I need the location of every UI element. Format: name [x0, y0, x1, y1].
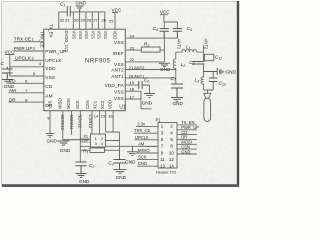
svg-text:GND: GND — [79, 179, 90, 184]
power VCC right top — [160, 10, 171, 22]
wire pin23 IREF — [125, 49, 141, 51]
svg-text:TX_EN: TX_EN — [49, 24, 54, 38]
wire pin10 — [63, 111, 89, 140]
ground below C7 — [171, 98, 184, 106]
svg-text:11: 11 — [160, 157, 165, 162]
antenna connector — [204, 93, 211, 121]
ground below C6 — [142, 94, 155, 106]
wire header pin9 — [137, 152, 159, 154]
svg-text:AM: AM — [138, 141, 145, 146]
wire pin13 stub — [91, 111, 93, 134]
ground below C2 — [76, 174, 91, 185]
wire below C9 — [203, 64, 205, 77]
capacitor C9 series on ANT2 line — [189, 60, 204, 66]
ground left of header — [125, 146, 138, 164]
wire pin5 VSS — [10, 75, 44, 77]
svg-text:VCC: VCC — [160, 10, 171, 15]
net label DR pin8 — [9, 97, 28, 102]
capacitor C left decoupling — [1, 61, 13, 80]
capacitor C3 crystal right — [108, 160, 125, 170]
wire crystal pad2 row to C3 — [106, 132, 120, 160]
svg-text:16M: 16M — [82, 139, 89, 143]
svg-text:VDD: VDD — [108, 100, 113, 109]
svg-text:GND: GND — [60, 148, 71, 153]
capacitor C5 — [173, 26, 192, 38]
wire header pin1 — [136, 126, 158, 128]
capacitor C2 crystal left — [76, 162, 95, 174]
wire pin2 — [14, 50, 44, 52]
svg-text:C: C — [1, 61, 5, 67]
wire L3 bottom — [203, 84, 205, 90]
wire crystal bottom row long run to header — [80, 145, 158, 147]
svg-text:IREF: IREF — [113, 51, 124, 56]
svg-text:VSS: VSS — [114, 40, 124, 45]
svg-text:VSS: VSS — [97, 31, 102, 40]
svg-text:DR: DR — [9, 97, 16, 102]
svg-text:CSN: CSN — [85, 100, 90, 109]
svg-text:VSS: VSS — [103, 31, 108, 40]
wire crystal pad1 row to MISO line — [63, 139, 91, 141]
svg-text:CD: CD — [9, 79, 16, 84]
U1 top pin names VSS vertical — [72, 31, 109, 40]
wire R2 to ground node — [160, 49, 164, 51]
svg-text:XC1: XC1 — [93, 100, 98, 109]
svg-text:14: 14 — [94, 113, 99, 118]
svg-text:SCK: SCK — [75, 100, 80, 109]
svg-text:XC2: XC2 — [100, 100, 105, 109]
ground on MISO crystal line — [58, 141, 71, 153]
svg-text:GND: GND — [125, 160, 136, 165]
svg-text:VDD_PA: VDD_PA — [105, 83, 125, 88]
capacitor C12 to sideways ground — [204, 68, 220, 75]
net label UPCLK pin3 — [15, 55, 34, 60]
wire header pin3 — [134, 132, 158, 134]
resistor R2 IREF — [141, 42, 160, 52]
power VCC top of chip — [112, 7, 123, 29]
wire antenna feed join — [204, 90, 214, 93]
power VCC left — [5, 50, 16, 76]
wire L2 to C7 — [176, 68, 177, 84]
svg-text:16: 16 — [108, 113, 113, 118]
wire header pin7 joins crystal ground run — [145, 145, 158, 147]
svg-text:GND: GND — [116, 175, 127, 180]
wire pin19 VDD_PA — [125, 84, 139, 86]
header pin numbers right column — [169, 124, 174, 169]
wire C6 to ground — [142, 85, 149, 94]
svg-text:VSS: VSS — [114, 96, 124, 101]
svg-text:12: 12 — [169, 157, 174, 162]
net label PWR_UP pin2 — [14, 46, 36, 51]
svg-text:VSS: VSS — [84, 31, 89, 40]
svg-text:UPCLK: UPCLK — [135, 135, 149, 140]
svg-text:ANT2: ANT2 — [111, 67, 124, 72]
wire pin4 VDD — [10, 66, 44, 68]
svg-text:AM: AM — [45, 94, 52, 99]
svg-text:MOSI: MOSI — [66, 98, 71, 109]
ground sideways right — [221, 69, 237, 74]
inductor L1 horizontal — [176, 45, 204, 53]
wire pin22 VSS — [125, 61, 164, 63]
svg-text:24: 24 — [130, 33, 135, 38]
svg-text:GND: GND — [142, 100, 153, 105]
svg-text:MISO: MISO — [57, 98, 62, 109]
svg-text:U1: U1 — [119, 105, 126, 111]
svg-text:NRF905: NRF905 — [85, 58, 111, 64]
border frame top — [2, 1, 239, 3]
svg-text:PWR UP: PWR UP — [14, 46, 33, 51]
capacitor C13 branch — [209, 72, 226, 91]
svg-text:31: 31 — [65, 17, 70, 22]
svg-text:GND: GND — [226, 70, 237, 75]
wire header pin6 — [177, 134, 197, 136]
wire header pin12 — [177, 148, 197, 150]
ground top center — [76, 1, 87, 12]
svg-text:TRX_CE: TRX_CE — [134, 128, 150, 133]
svg-text:25: 25 — [109, 18, 114, 23]
svg-text:14: 14 — [169, 164, 174, 169]
svg-text:UPCLK: UPCLK — [45, 58, 62, 63]
wire pin9 stub — [49, 111, 51, 134]
wire pin6 — [9, 82, 44, 84]
ground below pin9 — [46, 134, 58, 144]
svg-text:VSS: VSS — [72, 31, 77, 40]
wire ground node vertical — [163, 38, 165, 62]
svg-text:26: 26 — [102, 17, 107, 22]
wire pin18 VSS — [125, 90, 141, 92]
svg-text:ANT1: ANT1 — [111, 74, 124, 79]
wire pin32 stub — [58, 12, 60, 29]
wire header pin8 — [177, 138, 197, 140]
wire header pin4 — [177, 129, 197, 131]
border frame right — [237, 1, 239, 187]
wire pin24 VSS — [125, 37, 177, 39]
wire VCC rail to caps — [164, 22, 178, 29]
wire header pin13 — [137, 165, 158, 167]
ground right of chip — [159, 63, 171, 72]
wire pin27 stub — [98, 12, 100, 29]
svg-text:TRX CE: TRX CE — [14, 37, 31, 42]
svg-text:SCK: SCK — [138, 155, 147, 160]
svg-text:TRX_CE: TRX_CE — [40, 31, 45, 48]
wire pin21 ANT2 — [125, 69, 176, 71]
wire header pin10 — [177, 143, 197, 145]
border frame left — [1, 2, 3, 187]
wire pin17 VSS — [125, 91, 151, 109]
crystal X1 — [83, 133, 105, 147]
net label CD pin6 — [9, 79, 28, 84]
svg-text:ANT2: ANT2 — [204, 39, 209, 50]
capacitor C4 — [153, 26, 169, 38]
svg-text:VSS: VSS — [90, 31, 95, 40]
svg-text:30: 30 — [74, 17, 79, 22]
wire pin30 stub — [79, 12, 81, 29]
wire header pin5 — [135, 139, 159, 141]
svg-text:PWR_UP: PWR_UP — [45, 49, 66, 54]
wire header pin14 — [177, 153, 197, 155]
wire R1 left and right — [80, 150, 119, 159]
svg-text:UPCLK: UPCLK — [15, 55, 32, 60]
net label AM pin7 — [9, 88, 28, 93]
capacitor C11 box — [205, 54, 222, 60]
wire pin12 XC1 down to crystal ground chain — [79, 111, 81, 162]
svg-text:13: 13 — [160, 164, 165, 169]
svg-text:27: 27 — [93, 17, 98, 22]
wire pin11 — [71, 111, 73, 135]
svg-text:10: 10 — [169, 150, 174, 155]
wire header pin2 — [177, 124, 197, 126]
wire pin14 stub — [99, 111, 101, 134]
wire pin20 ANT1 — [125, 77, 176, 79]
wire pin3 — [14, 59, 44, 61]
wire pin16 stub and bus — [106, 111, 120, 132]
svg-text:3.3v: 3.3v — [137, 122, 146, 127]
svg-text:19: 19 — [130, 80, 135, 85]
wire pin1 — [14, 41, 44, 43]
net label TRX_CE pin1 — [14, 37, 35, 42]
svg-text:CD: CD — [45, 84, 53, 89]
connector P1 header body — [156, 117, 178, 174]
svg-text:VDD: VDD — [113, 31, 118, 40]
wire ANT2 vertical line — [203, 45, 205, 61]
IC U1 nRF905 body — [44, 29, 126, 111]
svg-text:VDD: VDD — [45, 66, 56, 71]
wire pin31 stub — [72, 12, 74, 29]
svg-text:VCC: VCC — [112, 7, 123, 12]
capacitor C6 VDD_PA decoupling — [139, 78, 150, 90]
svg-text:ANT1: ANT1 — [176, 39, 181, 50]
svg-text:VCC: VCC — [5, 50, 16, 55]
svg-text:P1: P1 — [156, 117, 162, 122]
ground left — [2, 80, 15, 90]
resistor R1 — [83, 148, 105, 154]
wire top ground rail — [59, 11, 105, 13]
capacitor C1 — [60, 2, 70, 17]
border frame bottom — [2, 184, 239, 187]
svg-text:GND: GND — [76, 1, 87, 6]
wire pin8 — [9, 101, 44, 103]
capacitor C7 — [171, 76, 184, 98]
svg-text:VSS: VSS — [114, 89, 124, 94]
crystal value 16M box — [81, 138, 91, 142]
header pin numbers left column — [160, 124, 165, 169]
wire pin29 stub — [85, 12, 87, 29]
wire pin28 stub — [91, 12, 93, 29]
inductor L2 vertical — [173, 59, 185, 68]
svg-text:Header 7X2: Header 7X2 — [156, 170, 176, 174]
svg-text:GND: GND — [173, 101, 184, 106]
svg-text:AM: AM — [9, 88, 16, 93]
svg-text:VSS: VSS — [48, 100, 53, 109]
svg-text:VSS: VSS — [78, 31, 83, 40]
inductor L3 vertical — [195, 77, 204, 84]
ground below C3 — [114, 170, 127, 181]
wire pin7 — [9, 92, 44, 94]
wire pin26 stub — [104, 12, 106, 29]
svg-text:GND: GND — [138, 161, 147, 166]
svg-text:DVDD_1V2: DVDD_1V2 — [64, 31, 69, 53]
wire header pin11 — [137, 159, 158, 161]
svg-text:MISO: MISO — [138, 148, 150, 153]
svg-text:VSS: VSS — [45, 75, 55, 80]
wire pin15 stub — [105, 111, 107, 132]
svg-text:VSS: VSS — [114, 62, 124, 67]
svg-text:29: 29 — [81, 17, 86, 22]
wire ANT1 vertical top — [175, 52, 177, 59]
svg-text:GND: GND — [47, 138, 58, 143]
svg-text:28: 28 — [87, 17, 92, 22]
